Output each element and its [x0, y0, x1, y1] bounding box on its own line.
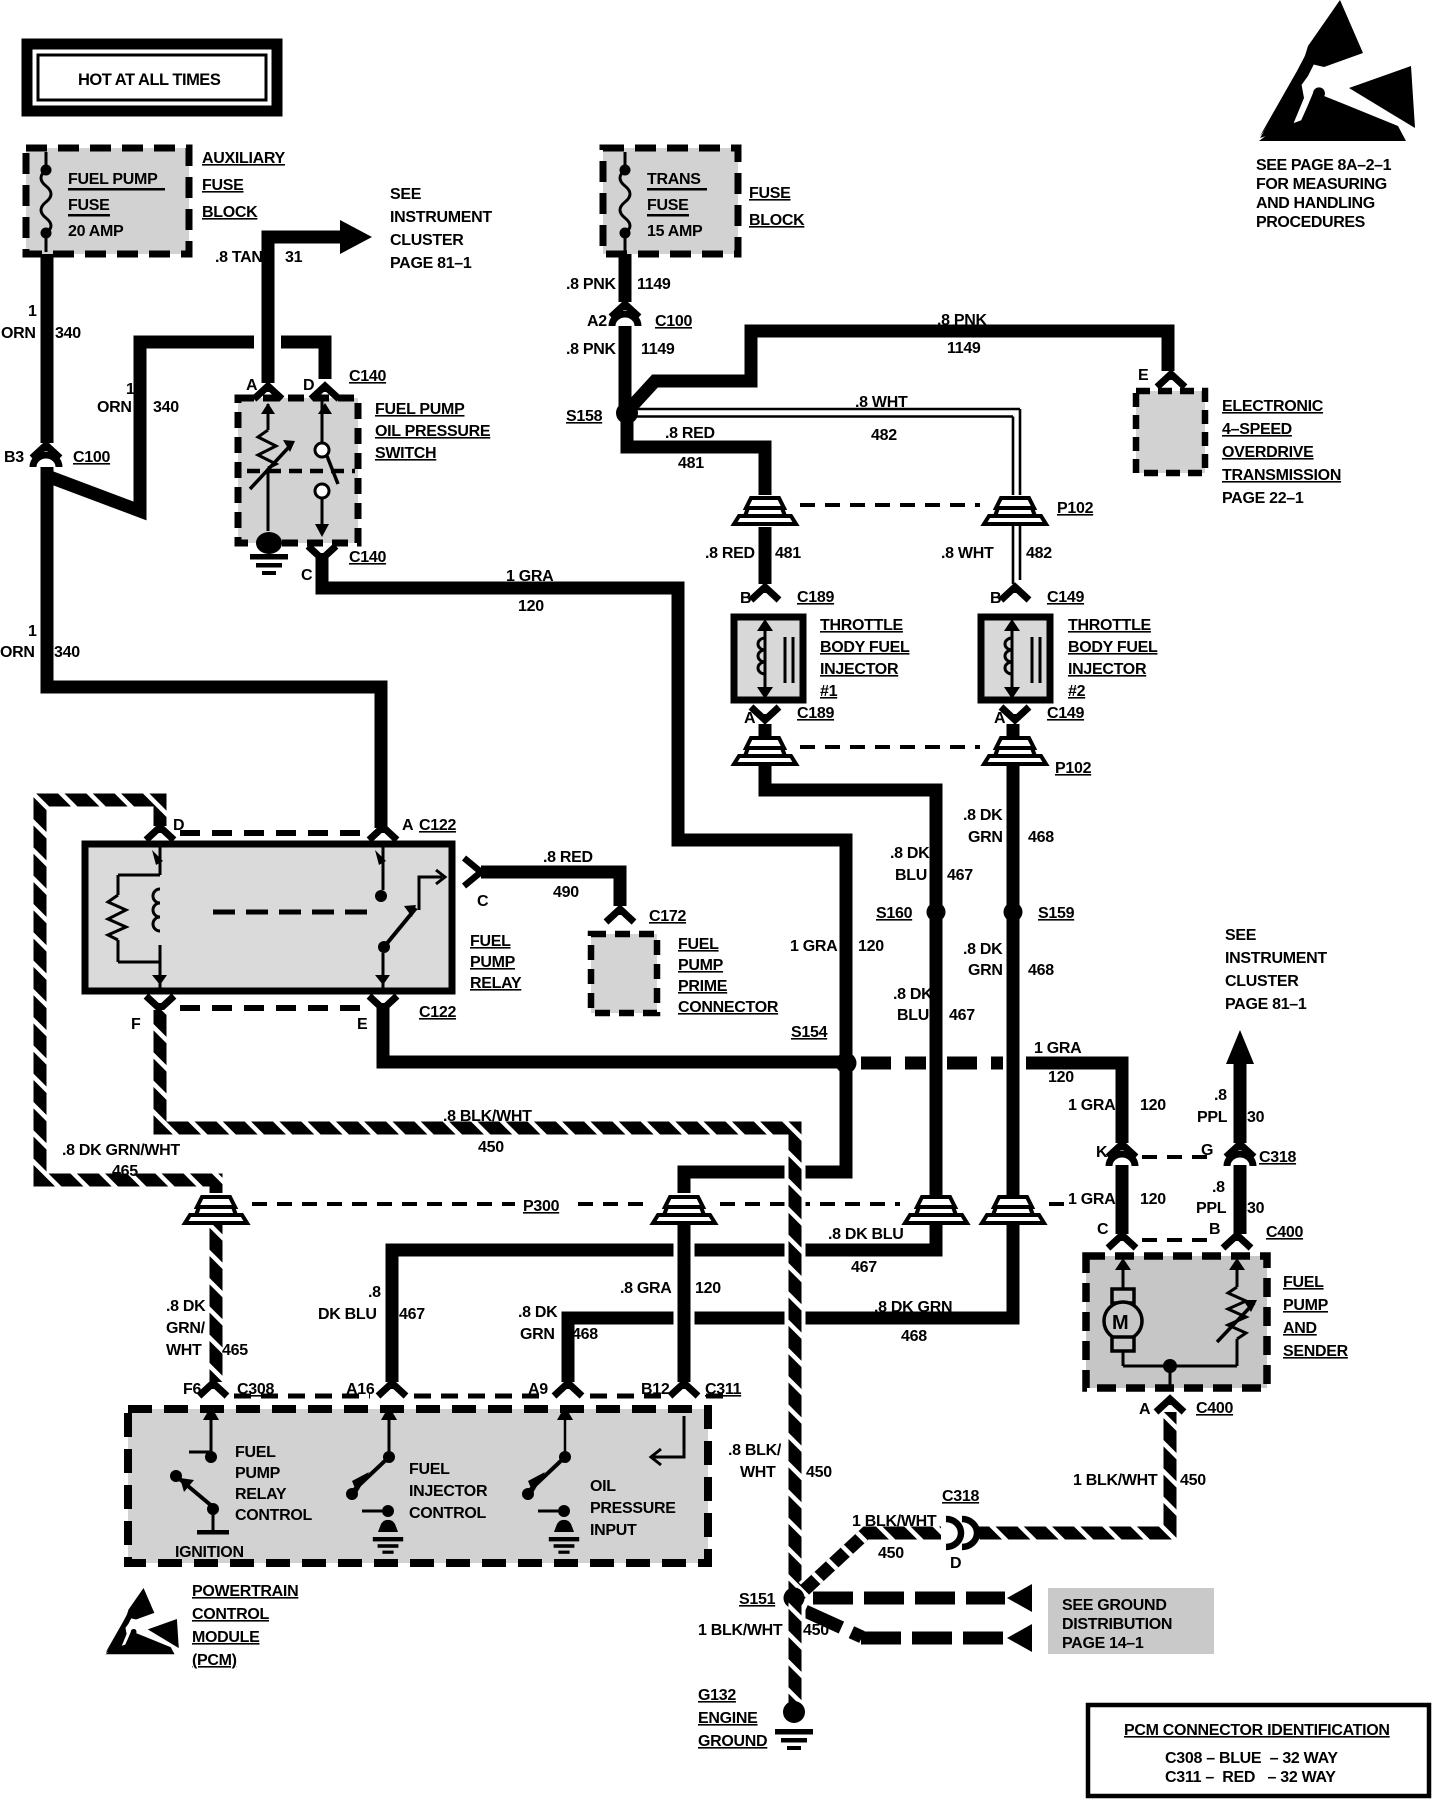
wire .8 DK GRN/WHT 465 from relay D to PCM F6 (white striped) [40, 800, 216, 1382]
svg-text:467: 467 [399, 1306, 425, 1323]
electronic 4-speed overdrive transmission box [1136, 391, 1205, 473]
svg-text:465: 465 [222, 1342, 248, 1359]
label SEE PAGE 8A-2-1 [1256, 157, 1392, 231]
wire .8 RED 490 from relay C to C172 [481, 872, 620, 906]
svg-text:B: B [990, 590, 1001, 607]
svg-text:ELECTRONIC: ELECTRONIC [1222, 398, 1324, 415]
svg-text:GRN: GRN [968, 829, 1003, 846]
svg-text:S158: S158 [566, 408, 603, 425]
svg-text:.8 RED: .8 RED [665, 425, 715, 442]
svg-text:1 BLK/WHT: 1 BLK/WHT [1073, 1472, 1158, 1489]
connector C100 pin A2 [611, 304, 639, 317]
svg-text:OIL PRESSURE: OIL PRESSURE [375, 423, 491, 440]
svg-text:ORN: ORN [97, 399, 132, 416]
svg-text:INJECTOR: INJECTOR [820, 661, 899, 678]
svg-text:450: 450 [878, 1545, 904, 1562]
relay pin D [146, 827, 174, 840]
wire .8 PNK 1149 from A2 to S158 [619, 326, 632, 406]
svg-text:467: 467 [851, 1259, 877, 1276]
svg-text:.8: .8 [368, 1284, 381, 1301]
connector C400 pin C [1108, 1235, 1136, 1248]
svg-text:468: 468 [1028, 829, 1054, 846]
connector P102 grommet (WHT) [984, 498, 1046, 524]
svg-text:1: 1 [126, 381, 135, 398]
PCM pin A9 [554, 1383, 582, 1396]
PCM fuel pump relay control driver [170, 1406, 229, 1535]
wire stub injector1 A to grommet [759, 724, 772, 742]
P102 dashed line and label (lower) [800, 745, 980, 749]
svg-text:FOR MEASURING: FOR MEASURING [1256, 176, 1387, 193]
svg-text:E: E [1138, 367, 1149, 384]
svg-text:DK BLU: DK BLU [318, 1306, 377, 1323]
wire .8 DK GRN 468 from injector 2 to S159 to P300 [1007, 764, 1020, 1193]
svg-text:A: A [744, 710, 756, 727]
svg-text:CONNECTOR: CONNECTOR [678, 999, 779, 1016]
svg-text:WHT: WHT [740, 1464, 776, 1481]
svg-text:120: 120 [1048, 1069, 1074, 1086]
svg-text:S151: S151 [739, 1591, 776, 1608]
svg-text:PAGE 81–1: PAGE 81–1 [1225, 996, 1307, 1013]
label SEE INSTRUMENT CLUSTER PAGE 81-1 (right) [1225, 927, 1327, 1013]
svg-text:PUMP: PUMP [235, 1465, 281, 1482]
svg-text:.8 DK GRN: .8 DK GRN [874, 1299, 952, 1316]
svg-text:BLU: BLU [895, 867, 927, 884]
svg-text:GRN: GRN [968, 962, 1003, 979]
label SEE INSTRUMENT CLUSTER PAGE 81-1 [390, 186, 492, 272]
ground G132 engine ground [783, 1701, 805, 1723]
svg-text:A: A [246, 377, 258, 394]
svg-text:.8 PNK: .8 PNK [566, 276, 617, 293]
svg-text:FUSE: FUSE [749, 185, 791, 202]
connector P102 grommet (injector 2) [984, 738, 1046, 764]
wire 1 GRA 120 from relay E to S154 [383, 1008, 846, 1062]
svg-text:K: K [1096, 1144, 1108, 1161]
svg-text:C400: C400 [1266, 1224, 1303, 1241]
svg-text:1 GRA: 1 GRA [506, 568, 554, 585]
svg-text:4–SPEED: 4–SPEED [1222, 421, 1292, 438]
ESD symbol (small, at PCM) [105, 1588, 178, 1654]
connector P300 grommet (DK BLU) [905, 1197, 967, 1223]
relay pin F [146, 996, 174, 1009]
svg-text:490: 490 [553, 884, 579, 901]
splice S151 [784, 1588, 805, 1609]
svg-text:1 GRA: 1 GRA [1068, 1191, 1116, 1208]
svg-text:HOT AT ALL TIMES: HOT AT ALL TIMES [78, 71, 221, 89]
relay pin A [369, 827, 397, 840]
PCM oil pressure input [522, 1406, 579, 1554]
wire .8 PPL 30 from C318 G to C400 B [1234, 1165, 1247, 1234]
svg-text:C400: C400 [1196, 1400, 1233, 1417]
switch pin D C140 [311, 386, 339, 399]
svg-text:120: 120 [518, 598, 544, 615]
svg-text:PUMP: PUMP [470, 954, 516, 971]
svg-text:TRANSMISSION: TRANSMISSION [1222, 467, 1341, 484]
svg-text:S154: S154 [791, 1024, 828, 1041]
svg-text:340: 340 [55, 325, 81, 342]
relay pin E [369, 996, 397, 1009]
svg-text:1149: 1149 [641, 341, 675, 358]
svg-text:AND: AND [1283, 1320, 1317, 1337]
svg-text:PRIME: PRIME [678, 978, 728, 995]
sender internal wire and junction [1123, 1365, 1237, 1368]
svg-text:120: 120 [1140, 1097, 1166, 1114]
svg-text:SEE: SEE [390, 186, 422, 203]
svg-text:30: 30 [1247, 1200, 1265, 1217]
svg-text:PUMP: PUMP [1283, 1297, 1329, 1314]
svg-text:BLU: BLU [897, 1007, 929, 1024]
fuse FUEL PUMP FUSE 20 AMP [41, 152, 166, 252]
svg-text:340: 340 [54, 644, 80, 661]
connector C172 pin [606, 909, 634, 922]
dashed ground wire to ground distribution (lower) [805, 1611, 862, 1637]
svg-text:D: D [950, 1555, 961, 1572]
svg-text:C318: C318 [942, 1488, 979, 1505]
svg-text:C: C [301, 567, 313, 584]
svg-text:A2: A2 [587, 313, 607, 330]
svg-text:C189: C189 [797, 589, 834, 606]
wire ORN below B3 to relay A [47, 467, 381, 828]
PCM fuel injector control driver [346, 1406, 403, 1554]
wire 1 BLK/WHT 450 from sender A to C318 D (white striped) [976, 1412, 1170, 1533]
svg-text:G132: G132 [698, 1687, 736, 1704]
svg-text:PAGE 81–1: PAGE 81–1 [390, 255, 472, 272]
svg-text:467: 467 [947, 867, 973, 884]
connector C400 pin A [1156, 1399, 1184, 1412]
svg-text:481: 481 [678, 455, 704, 472]
svg-text:481: 481 [775, 545, 801, 562]
svg-text:PUMP: PUMP [678, 957, 724, 974]
svg-text:POWERTRAIN: POWERTRAIN [192, 1583, 298, 1600]
wire 1 GRA 120 dashed run from S154 to C318 K [861, 1057, 1003, 1070]
svg-text:SEE GROUND: SEE GROUND [1062, 1597, 1167, 1614]
label AUXILIARY FUSE BLOCK [202, 150, 286, 221]
svg-text:1149: 1149 [947, 340, 981, 357]
svg-text:30: 30 [1247, 1109, 1265, 1126]
svg-text:AND HANDLING: AND HANDLING [1256, 195, 1375, 212]
svg-text:F6: F6 [183, 1381, 201, 1398]
svg-text:C122: C122 [419, 1004, 456, 1021]
svg-text:C311 – RED – 32 WAY: C311 – RED – 32 WAY [1165, 1769, 1336, 1786]
P102 dashed line and label [800, 503, 980, 507]
wire 1 BLK/WHT 450 from C318 D to S151 (white striped) [798, 1533, 941, 1596]
svg-text:FUEL PUMP: FUEL PUMP [68, 171, 158, 188]
svg-text:.8: .8 [1212, 1179, 1225, 1196]
svg-text:#1: #1 [820, 683, 838, 700]
svg-text:SENDER: SENDER [1283, 1343, 1349, 1360]
svg-text:P300: P300 [523, 1198, 560, 1215]
auxiliary fuse block box [26, 148, 189, 254]
svg-text:FUEL: FUEL [235, 1444, 276, 1461]
fuel pump prime connector box [591, 934, 657, 1013]
svg-text:465: 465 [112, 1163, 138, 1180]
label THROTTLE BODY FUEL INJECTOR #1 [820, 617, 910, 700]
relay coil with resistor [108, 847, 167, 988]
svg-text:C140: C140 [349, 549, 386, 566]
svg-text:.8 PNK: .8 PNK [566, 341, 617, 358]
svg-text:.8 DK BLU: .8 DK BLU [828, 1226, 904, 1243]
svg-text:SWITCH: SWITCH [375, 445, 436, 462]
svg-text:THROTTLE: THROTTLE [1068, 617, 1152, 634]
connector C318 pin D [946, 1519, 977, 1547]
svg-text:TRANS: TRANS [647, 171, 701, 188]
svg-text:.8 RED: .8 RED [543, 849, 593, 866]
switch internals: variable resistor to ground [250, 403, 332, 575]
svg-text:120: 120 [1140, 1191, 1166, 1208]
connector C400 pin B [1223, 1235, 1251, 1248]
svg-text:GRN: GRN [520, 1326, 555, 1343]
wire .8 TAN 31 to instrument cluster [258, 260, 279, 380]
svg-text:ENGINE: ENGINE [698, 1710, 758, 1727]
svg-text:C: C [477, 893, 489, 910]
svg-text:1 GRA: 1 GRA [790, 938, 838, 955]
HOT AT ALL TIMES box [27, 44, 277, 111]
relay pin C [464, 858, 481, 886]
svg-text:D: D [303, 377, 314, 394]
svg-text:.8 WHT: .8 WHT [941, 545, 994, 562]
svg-text:INPUT: INPUT [590, 1522, 637, 1539]
svg-text:.8 GRA: .8 GRA [620, 1280, 672, 1297]
svg-text:AUXILIARY: AUXILIARY [202, 150, 286, 167]
ESD warning symbol [1259, 0, 1415, 141]
svg-text:468: 468 [901, 1328, 927, 1345]
svg-text:C308 – BLUE – 32 WAY: C308 – BLUE – 32 WAY [1165, 1750, 1338, 1767]
svg-text:A: A [1139, 1401, 1151, 1418]
svg-text:PPL: PPL [1197, 1109, 1228, 1126]
svg-text:B: B [740, 590, 751, 607]
svg-text:F: F [131, 1016, 141, 1033]
svg-text:BODY FUEL: BODY FUEL [1068, 639, 1158, 656]
wire 1 BLK/WHT 450 from S151 to G132 (white striped) [785, 1598, 806, 1707]
dashed ground wire to ground distribution (upper) [813, 1592, 1005, 1605]
svg-text:1: 1 [28, 623, 37, 640]
connector P102 grommet (injector 1) [734, 738, 796, 764]
svg-text:C: C [1097, 1221, 1109, 1238]
svg-text:#2: #2 [1068, 683, 1086, 700]
svg-text:GROUND: GROUND [698, 1733, 767, 1750]
svg-text:.8 BLK/: .8 BLK/ [728, 1442, 782, 1459]
svg-text:FUEL: FUEL [409, 1461, 450, 1478]
connector P300 grommet (F6 wire) [185, 1197, 247, 1223]
svg-text:INSTRUMENT: INSTRUMENT [1225, 950, 1327, 967]
svg-text:PCM CONNECTOR IDENTIFICATION: PCM CONNECTOR IDENTIFICATION [1124, 1722, 1390, 1739]
connector P300 grommet (DK GRN) [982, 1197, 1044, 1223]
svg-text:1 GRA: 1 GRA [1068, 1097, 1116, 1114]
wire .8 BLK/WHT 450 from relay F to S151 (white striped) [160, 1010, 795, 1598]
PCM pin B12 C311 [670, 1383, 698, 1396]
connector C122 dashed line top [180, 830, 360, 836]
svg-text:CONTROL: CONTROL [409, 1505, 487, 1522]
svg-text:.8 DK: .8 DK [890, 845, 930, 862]
switch internals: pressure contacts [247, 398, 355, 537]
label box SEE GROUND DISTRIBUTION PAGE 14-1 [1048, 1588, 1214, 1654]
label ELECTRONIC 4-SPEED OVERDRIVE TRANSMISSION PAGE 22-1 [1222, 398, 1341, 507]
svg-text:.8 DK: .8 DK [518, 1304, 558, 1321]
svg-text:C100: C100 [655, 313, 692, 330]
svg-text:450: 450 [806, 1464, 832, 1481]
svg-text:.8 RED: .8 RED [705, 545, 755, 562]
svg-text:BODY FUEL: BODY FUEL [820, 639, 910, 656]
svg-text:C172: C172 [649, 908, 686, 925]
fuel pump and sender box [1086, 1256, 1267, 1388]
svg-text:1 GRA: 1 GRA [1034, 1040, 1082, 1057]
svg-text:.8: .8 [1214, 1087, 1227, 1104]
svg-text:C100: C100 [73, 449, 110, 466]
svg-text:120: 120 [695, 1280, 721, 1297]
svg-text:THROTTLE: THROTTLE [820, 617, 904, 634]
svg-text:GRN/: GRN/ [166, 1320, 206, 1337]
splice S154 [836, 1053, 857, 1074]
svg-text:482: 482 [871, 427, 897, 444]
svg-text:RELAY: RELAY [470, 975, 522, 992]
svg-text:M: M [1112, 1312, 1129, 1334]
svg-text:B3: B3 [4, 449, 24, 466]
svg-text:BLOCK: BLOCK [749, 212, 805, 229]
svg-text:A: A [402, 817, 414, 834]
svg-text:FUEL: FUEL [470, 933, 511, 950]
svg-text:MODULE: MODULE [192, 1629, 260, 1646]
svg-text:B: B [1209, 1221, 1220, 1238]
svg-text:CONTROL: CONTROL [235, 1507, 313, 1524]
svg-text:C149: C149 [1047, 589, 1084, 606]
PCM B12 input arrow [651, 1416, 684, 1465]
wire .8 PPL 30 up arrow to instrument cluster [1234, 1062, 1247, 1143]
svg-text:PAGE 14–1: PAGE 14–1 [1062, 1635, 1144, 1652]
svg-text:.8 DK GRN/WHT: .8 DK GRN/WHT [62, 1142, 180, 1159]
svg-text:FUSE: FUSE [68, 197, 110, 214]
PCM pin A16 [378, 1383, 406, 1396]
wire .8 RED 481 from S158 to injector 1 [627, 417, 765, 495]
fuel pump motor M [1104, 1258, 1142, 1366]
fuse TRANS FUSE 15 AMP [620, 152, 708, 252]
svg-text:SEE PAGE 8A–2–1: SEE PAGE 8A–2–1 [1256, 157, 1392, 174]
label FUEL PUMP OIL PRESSURE SWITCH [375, 401, 491, 462]
svg-text:.8 WHT: .8 WHT [855, 394, 908, 411]
svg-text:1 BLK/WHT: 1 BLK/WHT [852, 1513, 937, 1530]
connector C122 dashed line bottom [180, 1005, 360, 1011]
svg-text:CLUSTER: CLUSTER [390, 232, 464, 249]
label THROTTLE BODY FUEL INJECTOR #2 [1068, 617, 1158, 700]
svg-text:.8 DK: .8 DK [893, 986, 933, 1003]
switch pin C C140 [308, 546, 336, 559]
throttle body fuel injector #2 [981, 587, 1084, 727]
svg-text:A: A [994, 710, 1006, 727]
svg-text:RELAY: RELAY [235, 1486, 287, 1503]
svg-text:15 AMP: 15 AMP [647, 223, 703, 240]
svg-text:P102: P102 [1055, 760, 1092, 777]
svg-text:468: 468 [572, 1326, 598, 1343]
wire .8 PNK 1149 from fuse to A2 [619, 254, 632, 302]
svg-text:1: 1 [28, 303, 37, 320]
wire .8 GRA 120 vertical to PCM B12 (crosses over) [674, 1232, 695, 1375]
wire .8 DK BLU 467 from P300 to PCM A16 [392, 1193, 936, 1382]
powertrain control module box [128, 1409, 708, 1563]
svg-text:S159: S159 [1038, 905, 1075, 922]
connector P300 dashed line and label [252, 1202, 1064, 1206]
svg-text:PPL: PPL [1196, 1200, 1227, 1217]
svg-text:WHT: WHT [166, 1342, 202, 1359]
wire .8 DK GRN 468 from P300 to PCM A9 [568, 1193, 1013, 1382]
svg-text:PROCEDURES: PROCEDURES [1256, 214, 1366, 231]
svg-text:1149: 1149 [637, 276, 671, 293]
svg-text:S160: S160 [876, 905, 913, 922]
switch pin A C140 [254, 386, 282, 399]
connector C308/C311 dashed line [234, 1394, 730, 1399]
svg-text:FUEL: FUEL [1283, 1274, 1324, 1291]
svg-text:FUEL: FUEL [678, 936, 719, 953]
svg-text:340: 340 [153, 399, 179, 416]
svg-text:C122: C122 [419, 817, 456, 834]
fuel sender variable resistor [1217, 1258, 1257, 1366]
relay switch contact [213, 847, 445, 988]
svg-text:31: 31 [285, 249, 303, 266]
wire .8 WHT 482 thin double line [616, 394, 1052, 584]
svg-text:20 AMP: 20 AMP [68, 223, 124, 240]
svg-text:468: 468 [1028, 962, 1054, 979]
PCM connector identification box [1088, 1705, 1429, 1796]
svg-text:INJECTOR: INJECTOR [409, 1483, 488, 1500]
svg-text:120: 120 [858, 938, 884, 955]
svg-text:C189: C189 [797, 705, 834, 722]
wire 1 GRA 120 from C318 K to C400 C [1116, 1165, 1129, 1234]
svg-text:OVERDRIVE: OVERDRIVE [1222, 444, 1314, 461]
svg-text:450: 450 [478, 1139, 504, 1156]
fuel pump relay box C122 [85, 844, 452, 991]
wire 1 GRA 120 from S154 down to PCM B12 [684, 1063, 846, 1193]
connector P102 grommet (RED) [734, 498, 796, 524]
svg-text:E: E [357, 1016, 368, 1033]
fuel pump oil pressure switch box [238, 398, 358, 543]
throttle body fuel injector #1 [734, 587, 834, 727]
svg-text:OIL: OIL [590, 1478, 616, 1495]
svg-text:INJECTOR: INJECTOR [1068, 661, 1147, 678]
svg-text:.8 BLK/WHT: .8 BLK/WHT [443, 1108, 532, 1125]
svg-text:.8 PNK: .8 PNK [937, 312, 988, 329]
svg-text:.8 TAN: .8 TAN [215, 249, 263, 266]
svg-text:BLOCK: BLOCK [202, 204, 258, 221]
connector C100 pin B3 [32, 445, 60, 458]
svg-text:482: 482 [1026, 545, 1052, 562]
svg-text:IGNITION: IGNITION [175, 1544, 244, 1561]
svg-text:1 BLK/WHT: 1 BLK/WHT [698, 1622, 783, 1639]
transmission pin E [1157, 374, 1185, 387]
svg-text:CLUSTER: CLUSTER [1225, 973, 1299, 990]
svg-text:(PCM): (PCM) [192, 1652, 237, 1669]
svg-text:INSTRUMENT: INSTRUMENT [390, 209, 492, 226]
svg-text:ORN: ORN [0, 644, 35, 661]
svg-text:CONTROL: CONTROL [192, 1606, 270, 1623]
connector C318 pin G [1226, 1144, 1254, 1157]
wire .8 PNK 1149 from S158 to transmission E [622, 331, 1168, 417]
wire 1 ORN 340 from fuse down to B3 [41, 254, 54, 443]
wire ORN branch to switch D [47, 342, 254, 511]
svg-text:ORN: ORN [1, 325, 36, 342]
svg-text:C140: C140 [349, 368, 386, 385]
svg-text:SEE: SEE [1225, 927, 1257, 944]
svg-text:P102: P102 [1057, 500, 1094, 517]
svg-text:C318: C318 [1259, 1149, 1296, 1166]
connector C318 pin K [1108, 1144, 1136, 1157]
svg-text:C149: C149 [1047, 705, 1084, 722]
fuse block box (TRANS FUSE) [603, 148, 738, 254]
svg-text:FUEL PUMP: FUEL PUMP [375, 401, 465, 418]
svg-text:FUSE: FUSE [647, 197, 689, 214]
svg-text:450: 450 [1180, 1472, 1206, 1489]
svg-text:PRESSURE: PRESSURE [590, 1500, 676, 1517]
wire .8 DK BLU 467 from injector 1 to S160 to P300 [765, 764, 936, 1193]
connector P300 grommet (B12 wire) [653, 1197, 715, 1223]
svg-text:467: 467 [949, 1007, 975, 1024]
svg-text:DISTRIBUTION: DISTRIBUTION [1062, 1616, 1172, 1633]
